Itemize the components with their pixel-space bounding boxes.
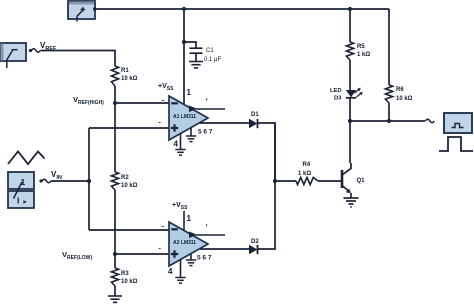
DC supply source +V (instrument box) xyxy=(68,1,95,19)
diode D1 xyxy=(249,119,258,128)
wire VREF(HIGH) to A1 inverting input xyxy=(115,102,169,104)
svg-text:VREF(HIGH): VREF(HIGH) xyxy=(73,95,104,106)
op-amp comparator A1 (LM311) xyxy=(169,96,208,140)
junction top rail / R5 branch xyxy=(348,7,352,11)
svg-text:R3: R3 xyxy=(121,271,129,277)
node R6 bottom xyxy=(387,119,391,123)
diode D2 xyxy=(249,245,258,254)
wire R2 to VREF(LOW) node xyxy=(114,190,116,254)
svg-text:R5: R5 xyxy=(357,44,365,50)
A1 ground pin stub xyxy=(190,128,192,136)
svg-text:10 kΩ: 10 kΩ xyxy=(121,183,138,189)
output pulse waveform glyph xyxy=(439,137,473,151)
svg-text:Q1: Q1 xyxy=(357,178,366,184)
svg-text:LED: LED xyxy=(330,88,342,94)
wire common to R4 xyxy=(275,180,296,182)
wire R5 branch top xyxy=(349,9,351,42)
ground divider xyxy=(108,295,122,297)
A2 output transistor xyxy=(189,232,197,239)
capacitor C1 xyxy=(184,42,196,48)
wire VIN to A1 noninverting input xyxy=(89,127,169,129)
A2 pin 1 stub xyxy=(183,211,185,231)
ground A2 pin4 xyxy=(175,277,185,279)
wire VIN to A2 inverting input xyxy=(89,229,169,231)
wire output node xyxy=(350,120,425,122)
svg-text:10 kΩ: 10 kΩ xyxy=(121,279,138,285)
svg-text:5 6 7: 5 6 7 xyxy=(198,129,213,136)
ground A1 pin4 xyxy=(175,149,185,151)
svg-text:1: 1 xyxy=(187,214,192,223)
svg-text:-: - xyxy=(159,246,162,253)
svg-text:D1: D1 xyxy=(251,112,259,118)
net connector scope xyxy=(426,119,435,122)
svg-text:0.1 μF: 0.1 μF xyxy=(204,57,221,63)
ground A2 pin xyxy=(186,259,196,261)
wire VIN vertical xyxy=(88,128,90,230)
svg-text:1 kΩ: 1 kΩ xyxy=(357,52,370,58)
resistor R4 xyxy=(296,177,318,184)
svg-text:R6: R6 xyxy=(396,87,404,93)
wire A1 output xyxy=(200,122,249,124)
svg-text:›: › xyxy=(206,96,208,103)
svg-text:I: I xyxy=(17,196,19,206)
A2 pin 4 xyxy=(180,260,182,278)
wire collector xyxy=(349,121,351,163)
svg-text:4: 4 xyxy=(168,267,173,276)
transistor Q1 xyxy=(341,170,344,188)
wire LED to output node xyxy=(349,98,351,121)
A1 pin 4 xyxy=(180,134,182,150)
node VREF(HIGH) xyxy=(113,101,117,105)
wire supply to op-amp A1 pin 1 xyxy=(183,9,185,105)
oscilloscope probe (instrument box) xyxy=(444,113,472,133)
wire R1 to VREF(HIGH) node xyxy=(114,86,116,103)
node VREF(LOW) xyxy=(113,252,117,256)
wire VIN xyxy=(51,180,89,182)
node VIN tee xyxy=(87,179,91,183)
svg-text:10 kΩ: 10 kΩ xyxy=(121,76,138,82)
svg-text:-: - xyxy=(159,120,162,127)
svg-text:4: 4 xyxy=(174,140,179,149)
junction top rail / op-amp supply xyxy=(182,7,186,11)
svg-text:A2 LM311: A2 LM311 xyxy=(173,240,196,246)
svg-text:R1: R1 xyxy=(121,68,129,74)
LED D3 xyxy=(346,90,356,97)
svg-text:1 kΩ: 1 kΩ xyxy=(298,171,311,177)
svg-text:D2: D2 xyxy=(251,239,259,245)
svg-text:+VSS: +VSS xyxy=(172,202,188,211)
wire top rail corner to R6 xyxy=(388,9,390,85)
source box VREF (instrument box) xyxy=(0,43,26,61)
ground Q1 emitter xyxy=(344,197,359,199)
svg-text:A1 LM311: A1 LM311 xyxy=(173,114,196,120)
ground A1 pin xyxy=(186,135,196,137)
wire D1 to common node xyxy=(258,123,276,181)
wire R5 to LED xyxy=(349,60,351,90)
op-amp comparator A2 (LM311) xyxy=(169,222,208,266)
A2 ground pin stub xyxy=(190,254,192,260)
net connector VREF xyxy=(29,49,32,52)
function generator (triangle wave source) xyxy=(8,152,45,165)
svg-text:1: 1 xyxy=(187,88,192,97)
svg-text:C1: C1 xyxy=(206,48,214,54)
svg-text:~: ~ xyxy=(161,99,165,105)
wire R3 to ground xyxy=(114,286,116,296)
junction cap tap xyxy=(182,40,186,44)
wire VREF xyxy=(41,51,116,67)
node diode common xyxy=(273,179,277,183)
svg-text:~: ~ xyxy=(161,225,165,231)
wire divider bottom xyxy=(114,254,116,268)
wire divider middle xyxy=(114,103,116,172)
resistor R1 xyxy=(111,66,118,86)
svg-text:D3: D3 xyxy=(334,96,342,102)
svg-text:R4: R4 xyxy=(303,162,311,168)
resistor R6 xyxy=(385,85,392,103)
svg-text:5 6 7: 5 6 7 xyxy=(197,255,212,262)
svg-text:10 kΩ: 10 kΩ xyxy=(396,96,413,102)
svg-text:+VSS: +VSS xyxy=(158,83,174,92)
resistor R5 xyxy=(346,42,353,60)
node LED / collector xyxy=(348,119,352,123)
resistor R2 xyxy=(111,172,118,190)
wire +V top rail xyxy=(95,8,389,10)
wire D2 to common node xyxy=(258,123,276,249)
svg-text:VIN: VIN xyxy=(51,170,62,181)
wire A2 output xyxy=(200,248,249,250)
svg-text:VREF(LOW): VREF(LOW) xyxy=(62,250,92,261)
net connector VIN xyxy=(39,179,42,182)
wire R6 to output node xyxy=(388,103,390,121)
wire R4 to Q1 base xyxy=(318,180,341,182)
wire VREF(LOW) to A2 noninverting input xyxy=(115,253,169,255)
ground C1 xyxy=(189,61,203,63)
svg-text:›: › xyxy=(206,222,208,229)
resistor R3 xyxy=(111,268,118,286)
A1 output transistor xyxy=(189,106,197,113)
svg-text:R2: R2 xyxy=(121,175,129,181)
